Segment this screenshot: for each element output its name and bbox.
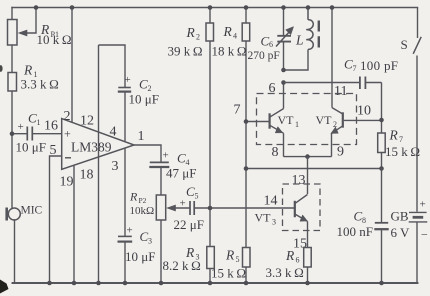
svg-text:39 k Ω: 39 k Ω xyxy=(168,44,203,59)
node tank bottom junction xyxy=(281,68,286,73)
svg-text:+: + xyxy=(18,121,24,133)
svg-text:10 μF: 10 μF xyxy=(125,249,155,264)
svg-text:3: 3 xyxy=(112,159,119,174)
label C7 value xyxy=(344,57,398,74)
node pin10/R7 junction xyxy=(379,118,384,123)
label RP1 value xyxy=(37,22,72,47)
svg-text:10 μF: 10 μF xyxy=(16,140,46,155)
label GB value xyxy=(391,199,429,242)
op-amp - input sign xyxy=(65,157,71,159)
svg-text:10: 10 xyxy=(357,104,371,119)
wire pin 12/18 column through op-amp to ground xyxy=(98,45,100,283)
inductor core dashes xyxy=(318,21,320,48)
svg-text:6: 6 xyxy=(296,256,300,265)
resistor R2 column xyxy=(209,8,211,284)
transistor VT1 xyxy=(270,83,284,157)
svg-text:2: 2 xyxy=(64,109,71,124)
junction dots bottom rail xyxy=(47,281,384,286)
svg-text:13: 13 xyxy=(292,173,306,188)
wire pin 5 to ground xyxy=(50,156,62,283)
label C6 value xyxy=(248,34,280,63)
scan artifact left edge speck xyxy=(0,65,3,72)
wire left column xyxy=(12,8,15,284)
resistor R6 xyxy=(304,248,312,268)
capacitor C5 xyxy=(190,201,295,215)
svg-text:R: R xyxy=(129,190,138,204)
svg-text:8.2 k Ω: 8.2 k Ω xyxy=(163,258,201,273)
svg-text:16: 16 xyxy=(44,119,58,134)
label C3 value xyxy=(125,225,155,265)
dashed box VT3 xyxy=(283,184,321,231)
svg-text:R: R xyxy=(223,24,233,39)
label C2 value xyxy=(125,74,159,107)
wire pin 7 xyxy=(246,121,270,123)
svg-text:7: 7 xyxy=(353,64,357,73)
svg-text:9: 9 xyxy=(337,145,344,160)
svg-text:6 V: 6 V xyxy=(391,225,411,240)
svg-text:270 pF: 270 pF xyxy=(248,50,280,62)
label R7 value xyxy=(385,128,420,160)
capacitor C3 xyxy=(118,236,133,241)
svg-text:P2: P2 xyxy=(139,196,147,205)
svg-text:R: R xyxy=(186,25,196,40)
wire bottom ground rail xyxy=(13,282,418,284)
svg-text:14: 14 xyxy=(264,194,278,209)
wire pin 13 xyxy=(307,157,309,194)
svg-text:15 k Ω: 15 k Ω xyxy=(385,144,420,159)
capacitor C8 xyxy=(374,169,388,284)
switch S xyxy=(413,8,421,212)
node A mic/C1 junction xyxy=(10,131,15,136)
svg-text:19: 19 xyxy=(60,175,74,190)
svg-text:R: R xyxy=(389,128,399,143)
pin 1 wire from op-amp output xyxy=(134,145,161,162)
node R7/C8 junction xyxy=(379,166,384,171)
svg-text:1: 1 xyxy=(37,118,41,127)
svg-text:5: 5 xyxy=(195,192,199,201)
svg-text:1: 1 xyxy=(138,129,145,144)
junction dots top rail xyxy=(34,5,335,10)
transistor VT2 xyxy=(331,8,382,157)
svg-text:VT: VT xyxy=(255,211,272,225)
capacitor C4 xyxy=(149,162,169,195)
svg-text:+: + xyxy=(64,127,71,141)
svg-text:10 μF: 10 μF xyxy=(129,92,159,107)
pin 19 wire to ground xyxy=(73,165,75,283)
svg-text:10kΩ: 10kΩ xyxy=(130,205,155,217)
svg-text:6: 6 xyxy=(269,40,273,49)
svg-text:3: 3 xyxy=(148,237,152,246)
svg-text:+: + xyxy=(420,199,426,211)
svg-text:−: − xyxy=(421,228,428,242)
svg-text:11: 11 xyxy=(334,84,347,99)
label C1 value xyxy=(16,111,46,155)
pin 3 wire and capacitor C3 column xyxy=(124,149,126,284)
svg-text:L: L xyxy=(295,33,304,48)
resistor R3 xyxy=(207,247,215,269)
svg-text:VT: VT xyxy=(316,113,333,127)
svg-text:10 k Ω: 10 k Ω xyxy=(37,32,72,47)
svg-text:R: R xyxy=(225,248,235,263)
dashed box VT1 VT2 xyxy=(257,94,357,145)
svg-text:+: + xyxy=(125,74,131,86)
potentiometer RP1 xyxy=(8,8,37,46)
wire pin 2 from rail to op-amp xyxy=(71,8,73,123)
svg-text:2: 2 xyxy=(333,120,337,129)
svg-text:18: 18 xyxy=(80,168,94,183)
wire VT1/VT2 emitters xyxy=(284,156,332,158)
label R4 value xyxy=(212,24,247,59)
microphone MIC xyxy=(7,208,21,221)
svg-text:4: 4 xyxy=(110,125,117,140)
label R2 value xyxy=(168,25,203,59)
label VT1 xyxy=(278,113,300,129)
resistor R5 xyxy=(243,248,251,268)
resistor R7 xyxy=(378,120,386,169)
wire bias node R5 to R7/C8 xyxy=(246,168,382,170)
label VT2 xyxy=(316,113,338,129)
junction dots middle xyxy=(208,119,249,210)
svg-text:+: + xyxy=(127,225,133,237)
svg-text:1: 1 xyxy=(295,120,299,129)
svg-text:12: 12 xyxy=(80,114,94,129)
resistor R2 xyxy=(206,23,214,41)
op-amp U1 LM389 triangle xyxy=(62,119,134,170)
svg-text:+: + xyxy=(180,198,186,210)
svg-text:18 k Ω: 18 k Ω xyxy=(212,44,247,59)
svg-text:7: 7 xyxy=(399,135,403,144)
capacitor C7 xyxy=(284,77,382,121)
svg-text:100 nF: 100 nF xyxy=(337,224,373,239)
inductor L xyxy=(284,8,314,71)
svg-text:LM389: LM389 xyxy=(71,140,112,155)
label RP2 value xyxy=(129,190,154,218)
label C4 value xyxy=(163,149,197,180)
svg-text:8: 8 xyxy=(272,145,279,160)
transistor VT3 xyxy=(295,195,308,248)
label R1 value xyxy=(21,63,59,92)
battery GB xyxy=(409,212,428,283)
svg-text:15 k Ω: 15 k Ω xyxy=(211,266,246,281)
svg-text:MIC: MIC xyxy=(21,205,43,217)
resistor R1 xyxy=(8,73,17,92)
svg-text:5: 5 xyxy=(236,255,240,264)
resistor R4 column xyxy=(245,8,247,284)
svg-text:22 μF: 22 μF xyxy=(174,217,204,232)
capacitor C6 variable xyxy=(276,8,294,71)
svg-text:47 μF: 47 μF xyxy=(166,166,196,181)
capacitor C1 xyxy=(12,127,62,141)
wire top supply rail xyxy=(12,7,418,9)
label R6 value xyxy=(266,248,304,280)
svg-text:3.3 k Ω: 3.3 k Ω xyxy=(266,265,304,280)
svg-text:4: 4 xyxy=(233,32,237,41)
svg-text:GB: GB xyxy=(391,209,409,224)
svg-text:+: + xyxy=(163,149,169,161)
svg-text:R: R xyxy=(23,63,33,78)
label R5 value xyxy=(211,248,246,281)
capacitor C2 xyxy=(118,88,131,142)
node pin6 junction xyxy=(281,80,286,85)
svg-text:3.3 k Ω: 3.3 k Ω xyxy=(21,77,59,92)
potentiometer RP2 xyxy=(156,195,190,283)
svg-text:VT: VT xyxy=(278,113,295,127)
svg-text:7: 7 xyxy=(234,103,241,118)
label R3 value xyxy=(163,245,201,273)
label VT3 xyxy=(255,211,277,227)
node emitter junction xyxy=(305,154,310,159)
scan artifact bottom left corner xyxy=(0,280,9,294)
svg-text:2: 2 xyxy=(196,33,200,42)
resistor R4 xyxy=(242,23,250,41)
wire C2 feedback loop xyxy=(99,45,126,87)
svg-text:3: 3 xyxy=(272,218,276,227)
label C5 value xyxy=(174,184,204,232)
svg-text:R: R xyxy=(285,248,295,263)
svg-text:S: S xyxy=(401,37,408,52)
svg-text:100 pF: 100 pF xyxy=(360,58,398,73)
label C8 value xyxy=(337,209,373,240)
